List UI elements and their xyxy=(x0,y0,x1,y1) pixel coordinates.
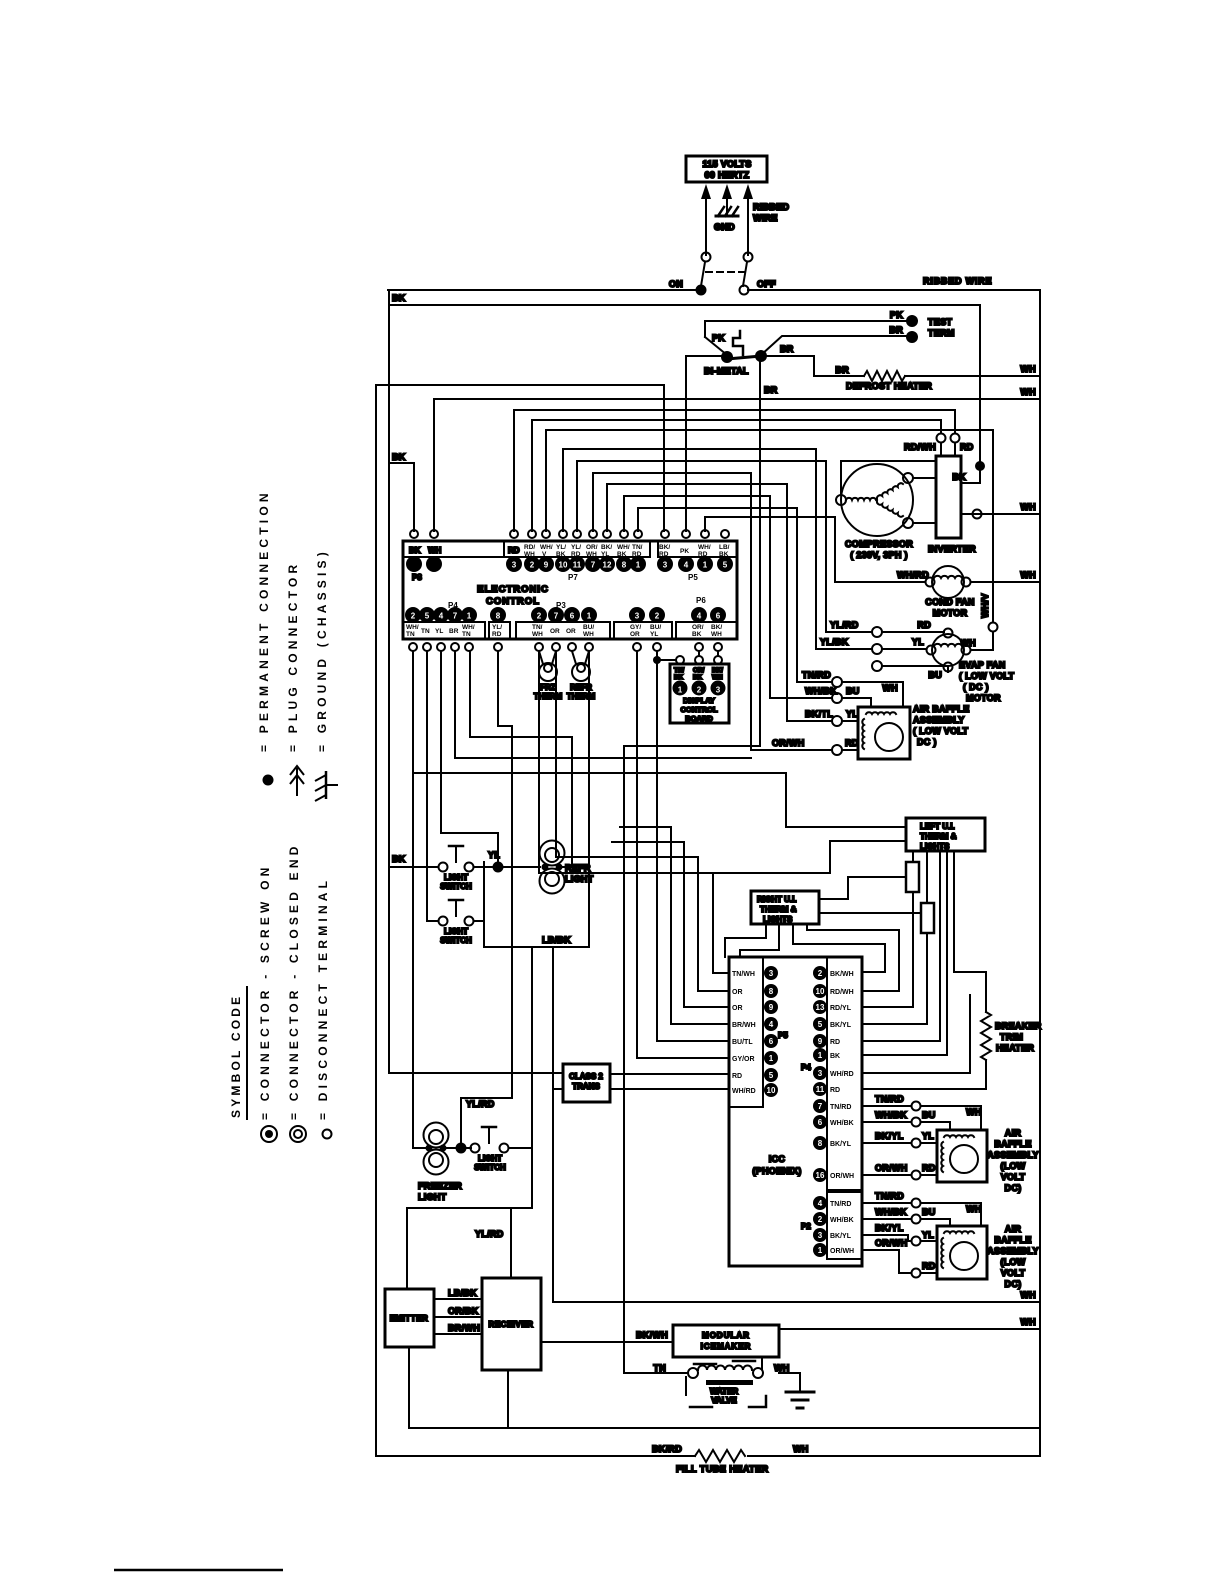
wire WH/RD from control WH/RD pin to cond fan xyxy=(705,517,929,582)
switch OFF pole xyxy=(740,253,777,295)
ground GND chassis symbol xyxy=(714,207,738,232)
svg-text:WH/: WH/ xyxy=(540,544,553,551)
svg-text:WH/BK: WH/BK xyxy=(830,1120,854,1127)
svg-text:TN/: TN/ xyxy=(674,667,684,674)
svg-text:TN/: TN/ xyxy=(532,624,543,631)
svg-text:RIBBED WIRE: RIBBED WIRE xyxy=(923,276,992,286)
svg-text:TRANS: TRANS xyxy=(572,1082,600,1091)
wire LB/BK down to class 2 trans xyxy=(484,921,571,1089)
wire compressor left terminal loop over top xyxy=(841,461,936,495)
svg-text:WH/RD: WH/RD xyxy=(732,1088,756,1095)
svg-text:8: 8 xyxy=(622,561,627,570)
wire BK/YL YL from control to air baffle 1 left xyxy=(607,484,858,726)
wire P6 pin2 BU/YL junction to display pin1 and ICC BU/YL xyxy=(653,651,729,1041)
display control board box xyxy=(670,664,729,723)
wire top line right of switch xyxy=(748,289,1040,291)
svg-text:BR/WH: BR/WH xyxy=(732,1022,756,1029)
svg-text:10: 10 xyxy=(767,1086,776,1095)
wire TN from P4 pin5 to light switch 2 xyxy=(427,651,438,921)
control top strip cells xyxy=(403,541,737,557)
wire P6 pin6 to display pin3 xyxy=(717,651,719,656)
svg-text:PK: PK xyxy=(712,333,725,343)
svg-text:BU: BU xyxy=(922,1110,936,1120)
wire right border xyxy=(1039,290,1041,1456)
svg-text:= GROUND (CHASSIS): = GROUND (CHASSIS) xyxy=(315,548,329,752)
svg-text:5: 5 xyxy=(818,1020,823,1029)
wire receiver right BK/WH to icemaker xyxy=(541,1330,673,1342)
wire emitter-receiver BR/WH xyxy=(434,1323,482,1334)
control bottom strip cells xyxy=(403,622,737,639)
wire class 2 left top from BK vertical xyxy=(389,1072,563,1074)
svg-text:P5: P5 xyxy=(778,1031,788,1040)
svg-text:BK: BK xyxy=(392,854,406,864)
svg-text:EVAP FAN: EVAP FAN xyxy=(959,660,1006,670)
svg-text:8: 8 xyxy=(818,1139,823,1148)
air baffle assembly 3 (bottom) xyxy=(937,1224,1039,1289)
wire bottom border right part xyxy=(748,1455,1040,1457)
REFR therm xyxy=(567,651,596,701)
svg-text:BREAKER: BREAKER xyxy=(995,1021,1042,1031)
svg-text:RD: RD xyxy=(830,1039,840,1046)
wire class 2 to ICC RD xyxy=(610,1073,729,1075)
svg-text:FRZ: FRZ xyxy=(540,683,556,692)
svg-text:P8: P8 xyxy=(412,573,422,582)
svg-text:1: 1 xyxy=(769,1054,774,1063)
svg-text:WH: WH xyxy=(1020,502,1036,512)
svg-text:2: 2 xyxy=(530,561,535,570)
node freezer junction xyxy=(447,1143,471,1154)
svg-text:BK: BK xyxy=(693,674,703,681)
svg-text:BR: BR xyxy=(835,365,849,375)
svg-text:3: 3 xyxy=(412,561,417,570)
svg-text:WH: WH xyxy=(1020,1317,1036,1327)
svg-text:(LOW: (LOW xyxy=(1000,1257,1025,1267)
svg-text:BK: BK xyxy=(409,546,421,555)
svg-text:BR: BR xyxy=(449,628,459,635)
compressor ( 230V, 3PH ) xyxy=(836,464,913,560)
svg-text:3: 3 xyxy=(818,1231,823,1240)
svg-text:7: 7 xyxy=(818,1102,823,1111)
resistor left ui 1 xyxy=(906,851,919,1007)
air baffle assembly 1 (upper) xyxy=(858,704,970,759)
svg-text:WH: WH xyxy=(966,1204,982,1214)
svg-text:1: 1 xyxy=(432,561,437,570)
svg-text:RIBBED: RIBBED xyxy=(753,202,790,212)
svg-text:RD: RD xyxy=(917,620,931,630)
cond fan motor xyxy=(925,566,974,618)
water valve xyxy=(653,1358,789,1407)
svg-text:DC): DC) xyxy=(1005,1183,1022,1193)
svg-text:DC ): DC ) xyxy=(917,737,937,747)
svg-text:3: 3 xyxy=(512,561,517,570)
svg-text:THERM &: THERM & xyxy=(760,905,797,914)
svg-text:GY/OR: GY/OR xyxy=(732,1056,755,1063)
svg-text:YL/: YL/ xyxy=(571,544,581,551)
svg-text:TN: TN xyxy=(462,631,471,638)
svg-text:ICC: ICC xyxy=(769,1154,786,1164)
left ui therm and lights box xyxy=(906,818,985,851)
svg-text:WH/RD: WH/RD xyxy=(897,570,929,580)
svg-text:3: 3 xyxy=(635,612,640,621)
wire supply right arrow xyxy=(743,184,753,255)
svg-text:RD: RD xyxy=(492,631,502,638)
wire left ui pin4 to ICC BK row xyxy=(862,851,947,1055)
wire ICC TN/RD to baffle2 xyxy=(862,1094,982,1130)
svg-text:WH/V: WH/V xyxy=(980,593,990,618)
svg-text:SWITCH: SWITCH xyxy=(440,882,472,891)
switch ON pole xyxy=(669,253,711,295)
freezer light lamps xyxy=(418,1123,462,1203)
svg-text:BU/TL: BU/TL xyxy=(732,1039,753,1046)
svg-text:WH/BK: WH/BK xyxy=(875,1110,907,1120)
wire right ui right to resistor 1 xyxy=(819,877,906,899)
svg-text:VOLT: VOLT xyxy=(1001,1268,1026,1278)
svg-text:WH: WH xyxy=(1020,387,1036,397)
svg-text:THERM: THERM xyxy=(567,692,596,701)
wire WH inverter right to border xyxy=(961,502,1040,519)
legend symbol ground chassis xyxy=(315,771,338,801)
svg-text:1: 1 xyxy=(587,612,592,621)
svg-text:OR/WH: OR/WH xyxy=(772,738,805,748)
wire left ui pin3 to ICC RD row xyxy=(862,851,940,1041)
svg-text:BK/: BK/ xyxy=(659,544,670,551)
svg-text:FILL TUBE HEATER: FILL TUBE HEATER xyxy=(676,1464,769,1474)
svg-text:TN/RD: TN/RD xyxy=(875,1191,904,1201)
wire left border xyxy=(375,385,377,1456)
symbol code legend xyxy=(229,489,330,1120)
svg-text:TN: TN xyxy=(421,628,430,635)
svg-text:9: 9 xyxy=(544,561,549,570)
svg-text:1: 1 xyxy=(467,612,472,621)
svg-text:AIR: AIR xyxy=(1005,1224,1022,1234)
svg-text:WH: WH xyxy=(532,631,543,638)
test terminal PK xyxy=(705,310,918,327)
svg-text:WH: WH xyxy=(711,631,722,638)
resistor left ui 2 xyxy=(921,851,934,1024)
svg-text:= PLUG CONNECTOR: = PLUG CONNECTOR xyxy=(286,561,300,752)
svg-text:THERM &: THERM & xyxy=(920,832,957,841)
svg-text:DISPLAY: DISPLAY xyxy=(683,696,715,705)
svg-text:LIGHT: LIGHT xyxy=(418,1192,447,1202)
svg-text:(PHOENIX): (PHOENIX) xyxy=(752,1166,801,1176)
svg-text:YL/: YL/ xyxy=(556,544,566,551)
right ui therm and lights box xyxy=(751,891,819,924)
breaker trim heater xyxy=(981,1012,1042,1060)
wire supply middle arrow xyxy=(722,184,732,216)
bi-metal defrost thermostat xyxy=(704,321,767,376)
svg-text:BK/YL: BK/YL xyxy=(830,1022,852,1029)
wire ICC BK/YL YL to baffle2 xyxy=(862,1131,937,1148)
wire P3 pin7 OR to ICC OR xyxy=(556,651,729,991)
air baffle assembly 2 (middle) xyxy=(937,1128,1039,1193)
svg-text:3: 3 xyxy=(769,969,774,978)
svg-text:SWITCH: SWITCH xyxy=(440,936,472,945)
svg-text:10: 10 xyxy=(559,561,568,570)
svg-text:7: 7 xyxy=(554,612,559,621)
svg-text:= DISCONNECT TERMINAL: = DISCONNECT TERMINAL xyxy=(316,877,330,1120)
svg-text:1: 1 xyxy=(678,686,683,695)
svg-text:BI-METAL: BI-METAL xyxy=(704,366,749,376)
svg-text:GND: GND xyxy=(714,222,735,232)
svg-text:LIGHT: LIGHT xyxy=(444,927,468,936)
wire P6 pin4 to display pin2 xyxy=(698,651,700,656)
wire resistor2 chain to ICC BK/YL row xyxy=(862,1023,927,1025)
ICC P5 pins xyxy=(732,966,778,1097)
svg-text:11: 11 xyxy=(816,1085,825,1094)
disconnect terminal BU stub at evap fan bottom xyxy=(872,661,948,680)
node YL junction xyxy=(474,850,540,873)
wire YL/RD from control to evap fan top xyxy=(577,461,944,637)
svg-text:DC): DC) xyxy=(1005,1279,1022,1289)
svg-text:YL/RD: YL/RD xyxy=(475,1229,504,1239)
svg-text:2: 2 xyxy=(537,612,542,621)
wire left ui feed lower via jog xyxy=(713,841,906,873)
svg-text:BK/YL: BK/YL xyxy=(875,1223,904,1233)
wire ICC P2 TN/RD to baffle3 xyxy=(862,1191,982,1226)
wire left ui pin5 to breaker top xyxy=(954,851,986,1012)
legend symbol code underline xyxy=(246,986,248,1120)
svg-text:4: 4 xyxy=(684,561,689,570)
svg-text:FREEZER: FREEZER xyxy=(418,1181,462,1191)
wire compressor top terminal to inverter xyxy=(913,477,936,479)
legend symbol connector closed end xyxy=(290,1126,306,1142)
svg-text:BK/TL: BK/TL xyxy=(805,709,833,719)
svg-text:BU/: BU/ xyxy=(650,624,661,631)
svg-text:VOLT: VOLT xyxy=(1001,1172,1026,1182)
svg-text:(LOW: (LOW xyxy=(1000,1161,1025,1171)
wire top line left of switch xyxy=(388,289,697,291)
receiver box xyxy=(482,1278,541,1370)
svg-text:MOTOR: MOTOR xyxy=(933,608,968,618)
wire light switch 2 to YL node via LB/BK xyxy=(474,862,484,921)
svg-text:OR: OR xyxy=(630,631,640,638)
wire OR/WH RD from control to air baffle 1 left xyxy=(593,473,859,755)
svg-text:WH: WH xyxy=(774,1363,790,1373)
svg-text:3: 3 xyxy=(716,686,721,695)
wire TN/RD from control to air baffle 1 xyxy=(638,508,903,707)
svg-text:AIR BAFFLE: AIR BAFFLE xyxy=(913,704,970,714)
wire ICC OR/WH RD to baffle2 xyxy=(862,1163,937,1180)
svg-text:INVERTER: INVERTER xyxy=(928,544,976,554)
svg-text:BOARD: BOARD xyxy=(685,714,713,723)
svg-text:2: 2 xyxy=(818,969,823,978)
svg-text:CLASS 2: CLASS 2 xyxy=(569,1072,603,1081)
svg-text:OR: OR xyxy=(566,628,576,635)
svg-text:TEST: TEST xyxy=(928,317,952,327)
svg-text:YL: YL xyxy=(846,709,858,719)
svg-text:8: 8 xyxy=(496,612,501,621)
svg-text:OR/: OR/ xyxy=(586,544,598,551)
svg-text:OR: OR xyxy=(732,1005,743,1012)
svg-text:WATER: WATER xyxy=(710,1387,739,1396)
wire right ui pin1 to ICC top xyxy=(725,924,766,957)
wire ICC P2 OR/WH RD to baffle3 xyxy=(862,1238,937,1278)
svg-text:WH: WH xyxy=(966,1107,982,1117)
svg-text:OR/WH: OR/WH xyxy=(830,1173,854,1180)
inverter top pins RD/WH and RD xyxy=(904,434,974,457)
svg-text:SYMBOL CODE: SYMBOL CODE xyxy=(229,994,243,1118)
svg-text:WH/RD: WH/RD xyxy=(830,1071,854,1078)
svg-text:ICEMAKER: ICEMAKER xyxy=(701,1342,752,1351)
svg-text:= CONNECTOR - CLOSED END: = CONNECTOR - CLOSED END xyxy=(287,842,301,1120)
modular icemaker box xyxy=(673,1325,779,1357)
svg-text:LIGHTS: LIGHTS xyxy=(920,842,950,851)
svg-text:OR/WH: OR/WH xyxy=(830,1248,854,1255)
svg-text:P5: P5 xyxy=(688,573,698,582)
wire BK/RD from left border to P5 pin 3 xyxy=(376,385,664,531)
svg-text:BR: BR xyxy=(889,325,903,335)
wire to ICC OR row 2 xyxy=(612,842,729,1007)
wire BU/WH pin1 down through freezer to emitter/receiver xyxy=(407,651,589,1289)
svg-text:WH/BK: WH/BK xyxy=(830,1217,854,1224)
svg-text:TN/RD: TN/RD xyxy=(830,1201,851,1208)
svg-text:RD: RD xyxy=(960,442,974,452)
svg-text:( 230V, 3PH ): ( 230V, 3PH ) xyxy=(850,550,908,560)
svg-text:PK: PK xyxy=(890,310,903,320)
test terminal BR xyxy=(761,325,918,355)
svg-text:4: 4 xyxy=(697,612,702,621)
svg-text:6: 6 xyxy=(818,1118,823,1127)
wire resistor1 chain to ICC RD/YL row xyxy=(862,1006,913,1008)
svg-text:WH: WH xyxy=(712,674,723,681)
wire YL from P4 pin4 xyxy=(441,651,498,862)
svg-text:6: 6 xyxy=(716,612,721,621)
wire left ui feed upper xyxy=(413,773,906,827)
svg-text:MODULAR: MODULAR xyxy=(702,1331,750,1340)
svg-text:GY/: GY/ xyxy=(630,624,641,631)
svg-text:RD: RD xyxy=(922,1163,936,1173)
svg-text:TN/RD: TN/RD xyxy=(875,1094,904,1104)
svg-text:ASSEMBLY: ASSEMBLY xyxy=(913,715,965,725)
svg-text:RD/: RD/ xyxy=(524,544,535,551)
wire BR vertical from bimetal down to ICC top xyxy=(760,356,778,746)
svg-text:RECEIVER: RECEIVER xyxy=(489,1320,534,1329)
svg-text:2: 2 xyxy=(818,1215,823,1224)
svg-text:60 HERTZ: 60 HERTZ xyxy=(705,170,750,180)
svg-text:BU/: BU/ xyxy=(583,624,594,631)
wire second top line to inverter BK xyxy=(389,305,980,483)
svg-text:RD: RD xyxy=(830,1087,840,1094)
svg-text:RD: RD xyxy=(732,1073,742,1080)
display board pin labels xyxy=(674,667,723,681)
svg-text:BK/: BK/ xyxy=(712,667,723,674)
svg-text:BK/YL: BK/YL xyxy=(830,1141,852,1148)
svg-text:BK: BK xyxy=(692,631,702,638)
wire emitter-receiver OR/BK xyxy=(434,1306,482,1317)
wire bimetal left to PK pin of P5 xyxy=(686,356,727,531)
defrost heater xyxy=(760,344,1040,391)
svg-text:3: 3 xyxy=(663,561,668,570)
svg-text:5: 5 xyxy=(769,1071,774,1080)
svg-text:TERM: TERM xyxy=(928,328,955,338)
FRZ therm xyxy=(534,651,563,701)
wire WH/BK BU from control to air baffle 1 xyxy=(624,496,871,707)
switch link dashed xyxy=(706,271,744,273)
svg-text:YL: YL xyxy=(922,1230,934,1240)
svg-text:AIR: AIR xyxy=(1005,1128,1022,1138)
electronic control box xyxy=(403,541,737,639)
light switch refr 1 xyxy=(439,846,474,891)
115 VOLTS 60 HERTZ source box xyxy=(686,156,767,182)
svg-text:6: 6 xyxy=(769,1037,774,1046)
wire ICC P2 WH/BK BU to baffle3 xyxy=(862,1207,950,1226)
svg-text:BK: BK xyxy=(392,293,406,303)
svg-text:6: 6 xyxy=(570,612,575,621)
junction dot inverter BK xyxy=(975,461,985,471)
svg-text:1: 1 xyxy=(636,561,641,570)
wire compressor bottom terminal to inverter xyxy=(913,522,936,524)
svg-text:WH: WH xyxy=(583,631,594,638)
svg-text:YL/RD: YL/RD xyxy=(466,1099,495,1109)
svg-text:OFF: OFF xyxy=(757,279,776,289)
wire emitter-receiver LB/BK xyxy=(434,1288,482,1299)
svg-text:EMITTER: EMITTER xyxy=(390,1314,429,1323)
legend symbol connector screw on xyxy=(261,1126,277,1142)
svg-text:MOTOR: MOTOR xyxy=(966,693,1001,703)
svg-text:BU: BU xyxy=(922,1207,936,1217)
svg-text:YL: YL xyxy=(435,628,443,635)
light switch freezer xyxy=(471,1127,509,1172)
svg-text:WH: WH xyxy=(1020,364,1036,374)
svg-text:2: 2 xyxy=(697,686,702,695)
svg-text:OR/BK: OR/BK xyxy=(448,1306,479,1316)
svg-text:CONTROL: CONTROL xyxy=(680,705,717,714)
svg-text:1: 1 xyxy=(818,1246,823,1255)
wire WH from P8 pin1 to right border xyxy=(434,387,1040,531)
svg-text:= CONNECTOR - SCREW ON: = CONNECTOR - SCREW ON xyxy=(258,863,272,1120)
svg-text:ASSEMBLY: ASSEMBLY xyxy=(987,1246,1039,1256)
svg-text:YL: YL xyxy=(912,637,924,647)
wire class 2 to ICC WH/RD xyxy=(610,1088,729,1090)
wire refr light right to WH/TN pin1 xyxy=(470,651,572,867)
svg-text:LB/BK: LB/BK xyxy=(448,1288,477,1298)
svg-text:BK/: BK/ xyxy=(601,544,612,551)
svg-text:4: 4 xyxy=(818,1199,823,1208)
wire RD/WH from control P7 to inverter xyxy=(532,420,941,531)
svg-text:1: 1 xyxy=(703,561,708,570)
svg-text:WH: WH xyxy=(960,638,976,648)
refr light lamps xyxy=(540,841,594,894)
svg-text:TN/WH: TN/WH xyxy=(732,971,755,978)
wire WH cond fan to border xyxy=(971,570,1040,582)
wire right ui pin3 to ICC BK/WH row xyxy=(793,924,885,972)
svg-text:( LOW VOLT: ( LOW VOLT xyxy=(913,726,969,736)
svg-text:12: 12 xyxy=(603,561,612,570)
svg-text:ON: ON xyxy=(669,279,683,289)
wire breaker bottom to ICC RD 11 row xyxy=(862,1060,986,1089)
svg-text:RD/YL: RD/YL xyxy=(830,1005,852,1012)
emitter box xyxy=(385,1289,434,1347)
svg-text:WH: WH xyxy=(1020,1290,1036,1300)
svg-text:OR/WH: OR/WH xyxy=(875,1238,908,1248)
footer rule xyxy=(114,1569,283,1572)
svg-text:RIGHT U.I.: RIGHT U.I. xyxy=(757,895,797,904)
svg-text:LIGHT: LIGHT xyxy=(478,1154,502,1163)
wire YL/BK from control to evap fan left xyxy=(563,449,926,654)
svg-text:TN/RD: TN/RD xyxy=(802,670,831,680)
wire P3 pin2 TN/WH to ICC TN/WH xyxy=(539,651,729,973)
svg-text:P4: P4 xyxy=(801,1063,811,1072)
wire class2 node to WH border line xyxy=(553,1089,1040,1302)
svg-text:WH/BK: WH/BK xyxy=(875,1207,907,1217)
svg-text:LEFT U.I.: LEFT U.I. xyxy=(920,822,955,831)
svg-text:YL/RD: YL/RD xyxy=(830,620,859,630)
svg-text:TN/RD: TN/RD xyxy=(830,1104,851,1111)
legend symbol permanent connection dot xyxy=(263,775,274,786)
svg-text:VALVE: VALVE xyxy=(711,1396,737,1405)
svg-text:OR: OR xyxy=(732,989,743,996)
svg-text:WH/BK: WH/BK xyxy=(805,686,837,696)
